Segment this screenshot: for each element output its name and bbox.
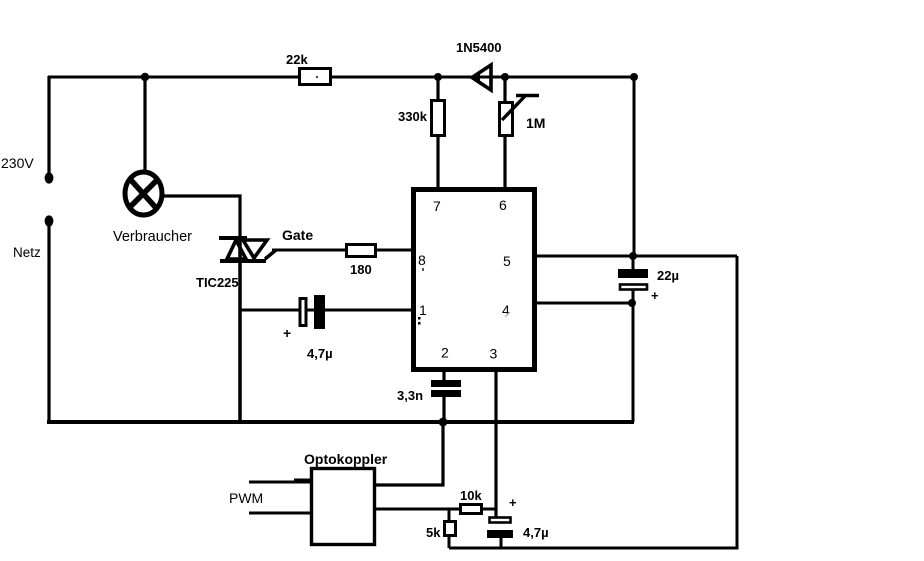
node junction pin5 22u xyxy=(629,252,637,260)
wire lamp to triac xyxy=(163,196,240,238)
wire gate to pin 8 xyxy=(272,249,412,252)
svg-text:330k: 330k xyxy=(398,109,428,124)
svg-text:230V: 230V xyxy=(1,155,34,171)
node junction diode 1M xyxy=(501,73,509,81)
svg-text:Verbraucher: Verbraucher xyxy=(113,229,192,245)
svg-text:4,7µ: 4,7µ xyxy=(307,346,333,361)
lamp Verbraucher xyxy=(125,172,162,215)
svg-text:TIC225: TIC225 xyxy=(196,275,239,290)
svg-text:22k: 22k xyxy=(286,52,308,67)
diode 1N5400 xyxy=(470,65,491,90)
wire top rail xyxy=(48,76,634,79)
wire PWM upper xyxy=(249,481,311,482)
wire pin 2 down xyxy=(442,372,445,381)
svg-text:+: + xyxy=(283,325,291,341)
wire pin 1 branch xyxy=(240,309,412,312)
wire pin 5 xyxy=(537,255,737,258)
wire left vertical upper xyxy=(47,76,50,174)
wire far right vertical xyxy=(736,256,739,548)
svg-text:1: 1 xyxy=(419,302,427,318)
potentiometer 1M xyxy=(500,95,540,136)
svg-text:1N5400: 1N5400 xyxy=(456,40,502,55)
svg-text:3,3n: 3,3n xyxy=(397,388,423,403)
svg-text:2: 2 xyxy=(441,345,449,361)
svg-text:180: 180 xyxy=(350,262,372,277)
svg-text:Netz: Netz xyxy=(13,245,41,260)
node 230V lower terminal xyxy=(45,215,54,226)
svg-text:6: 6 xyxy=(499,197,507,213)
wire opto feedback horizontal xyxy=(376,483,445,486)
capacitor 4,7u right xyxy=(487,518,513,549)
svg-text:7: 7 xyxy=(433,198,441,214)
node junction top rail lamp xyxy=(141,73,149,81)
node junction bottom rail xyxy=(439,418,448,427)
resistor 22k xyxy=(300,69,331,85)
resistor 330k xyxy=(432,101,445,136)
svg-text:+: + xyxy=(651,288,659,303)
node junction pin4 22u xyxy=(628,299,636,307)
svg-text:+: + xyxy=(509,495,517,510)
wire pin 4 xyxy=(537,302,633,305)
svg-text:Optokoppler: Optokoppler xyxy=(304,451,388,467)
capacitor 22u xyxy=(618,256,648,303)
wire opto feedback vertical xyxy=(441,422,444,485)
wire 1M vertical xyxy=(503,77,506,188)
capacitor 4,7u left xyxy=(300,295,325,329)
wire opto output xyxy=(376,508,497,511)
wire bottom right rail xyxy=(449,547,739,550)
svg-text:4,7µ: 4,7µ xyxy=(523,525,549,540)
svg-text:Gate: Gate xyxy=(282,227,313,243)
node 230V upper terminal xyxy=(45,172,54,183)
stray mark under pin 8 xyxy=(422,268,424,271)
resistor 180 xyxy=(347,245,376,257)
optocoupler box xyxy=(312,469,375,545)
wire pin4 node down to bottom rail xyxy=(632,303,635,422)
capacitor 3,3n xyxy=(431,380,461,397)
wire triac branch vertical xyxy=(238,238,242,422)
stray mark near pin 4 xyxy=(505,312,510,317)
wire left vertical lower xyxy=(47,223,50,423)
svg-text:8: 8 xyxy=(418,252,426,268)
node junction 330k top xyxy=(434,73,442,81)
svg-text:3: 3 xyxy=(490,346,498,362)
wire 3,3n to rail xyxy=(442,397,445,422)
svg-text:PWM: PWM xyxy=(229,490,263,506)
svg-text:5: 5 xyxy=(503,253,511,269)
wire right vertical from top rail xyxy=(633,77,636,256)
triac TIC225 xyxy=(219,238,276,261)
wire 330k vertical xyxy=(436,77,439,188)
wire lamp branch vertical xyxy=(143,77,146,173)
wire pin 3 down xyxy=(494,372,497,517)
wire PWM lower xyxy=(249,512,311,515)
wire bottom rail xyxy=(47,420,634,424)
svg-text:1M: 1M xyxy=(526,115,545,131)
resistor 10k xyxy=(461,505,482,514)
IC U1 xyxy=(414,190,535,370)
stray mark under pin 1 xyxy=(418,317,421,325)
svg-text:10k: 10k xyxy=(460,488,482,503)
node endpoint top right xyxy=(630,73,638,81)
svg-text:22µ: 22µ xyxy=(657,268,679,283)
svg-text:5k: 5k xyxy=(426,525,441,540)
resistor 5k xyxy=(445,509,456,548)
